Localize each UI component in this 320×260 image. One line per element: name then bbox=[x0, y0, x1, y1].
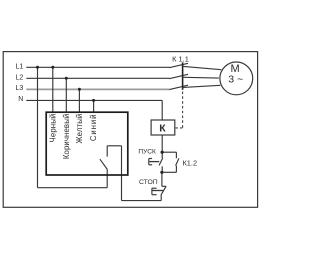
svg-text:L1: L1 bbox=[16, 64, 24, 71]
svg-text:Коричневый: Коричневый bbox=[62, 114, 71, 160]
svg-text:СТОП: СТОП bbox=[139, 179, 158, 186]
svg-text:L2: L2 bbox=[16, 74, 24, 81]
svg-text:Синий: Синий bbox=[89, 114, 98, 142]
svg-text:К1.2: К1.2 bbox=[183, 158, 198, 167]
svg-text:Черный: Черный bbox=[48, 114, 57, 143]
svg-text:N: N bbox=[18, 96, 23, 103]
svg-text:К: К bbox=[159, 123, 166, 135]
svg-text:К 1.1: К 1.1 bbox=[172, 54, 189, 63]
svg-text:Желтый: Желтый bbox=[75, 114, 84, 144]
svg-text:3 ~: 3 ~ bbox=[228, 74, 243, 86]
svg-text:ПУСК: ПУСК bbox=[138, 149, 156, 156]
svg-text:L3: L3 bbox=[16, 85, 24, 92]
